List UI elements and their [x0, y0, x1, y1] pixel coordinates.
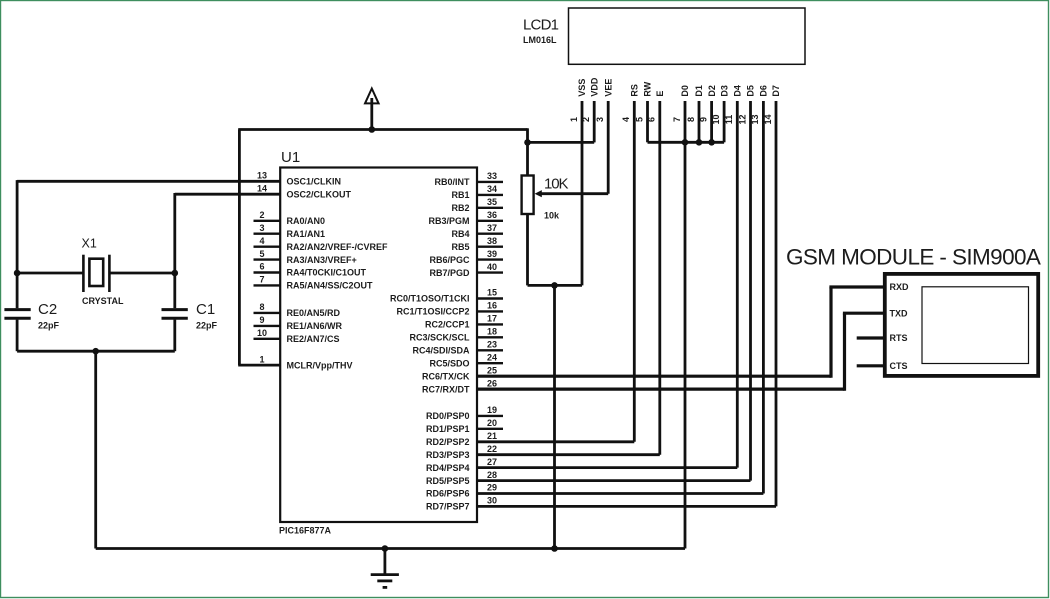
- svg-text:E: E: [655, 91, 665, 97]
- svg-text:RA1/AN1: RA1/AN1: [287, 229, 326, 239]
- svg-text:18: 18: [487, 327, 497, 337]
- LCD1 pin 7 D0 label: [672, 85, 690, 122]
- svg-text:RTS: RTS: [890, 333, 908, 343]
- svg-text:21: 21: [487, 431, 497, 441]
- svg-text:6: 6: [647, 117, 657, 122]
- junction: OSC2 / X1 / C1 node: [172, 270, 179, 277]
- svg-text:D7: D7: [771, 85, 781, 97]
- svg-text:10K: 10K: [544, 176, 568, 193]
- svg-text:5: 5: [259, 249, 264, 259]
- svg-text:OSC1/CLKIN: OSC1/CLKIN: [287, 177, 342, 187]
- U1 pin 6 RA4/T0CKI/C1OUT: [254, 262, 367, 278]
- LCD1 pin 2 VDD label: [581, 77, 599, 122]
- wire: GSM RTS stub: [857, 336, 883, 339]
- wire: VCC power rail: [238, 128, 527, 131]
- LCD1 pin 3 VEE label: [595, 79, 613, 122]
- svg-text:D4: D4: [733, 85, 743, 97]
- RV1 wiper arrow: [535, 190, 609, 197]
- LCD1 pin 9 D2 label: [698, 85, 716, 122]
- svg-text:D5: D5: [746, 85, 756, 97]
- U1 pin 22 RD3/PSP3: [426, 444, 497, 460]
- wire: LCD1 pin 7 D0 vertical: [684, 101, 687, 549]
- svg-text:RB3/PGM: RB3/PGM: [428, 216, 469, 226]
- svg-text:20: 20: [487, 418, 497, 428]
- svg-text:GSM MODULE - SIM900A: GSM MODULE - SIM900A: [786, 245, 1041, 270]
- junction: RV1 bottom / ground drop: [551, 282, 558, 289]
- svg-text:TXD: TXD: [890, 308, 909, 318]
- U1 pin 25 RC6/TX/CK: [422, 365, 497, 381]
- svg-text:PIC16F877A: PIC16F877A: [279, 526, 332, 536]
- svg-text:13: 13: [750, 114, 760, 124]
- wire: RD3 pin 22 to LCD E: [477, 453, 660, 456]
- wire: LCD1 pin 4 RS vertical: [633, 101, 636, 442]
- svg-text:1: 1: [569, 117, 579, 122]
- svg-text:C2: C2: [38, 301, 57, 318]
- svg-text:36: 36: [487, 210, 497, 220]
- wire: LCD1 pin 13 D6 vertical: [762, 101, 765, 494]
- svg-text:33: 33: [487, 171, 497, 181]
- wire: OSC2 pin 14 to crystal: [175, 193, 280, 196]
- svg-text:RA2/AN2/VREF-/CVREF: RA2/AN2/VREF-/CVREF: [287, 242, 389, 252]
- svg-text:30: 30: [487, 496, 497, 506]
- junction: VDD branch: [524, 139, 531, 146]
- svg-text:22: 22: [487, 444, 497, 454]
- svg-text:U1: U1: [281, 149, 300, 166]
- wire: LCD1 pin 3 VEE vertical: [607, 101, 610, 194]
- wire: RD7 pin 30 to LCD D7: [477, 505, 776, 508]
- svg-text:39: 39: [487, 249, 497, 259]
- LCD1 pin 13 D6 label: [750, 85, 768, 124]
- svg-text:14: 14: [763, 114, 773, 124]
- junction: ground rail / ground symbol: [382, 545, 389, 552]
- svg-text:23: 23: [487, 340, 497, 350]
- wire: ground rail: [96, 547, 685, 550]
- svg-text:D6: D6: [759, 85, 769, 97]
- svg-text:D2: D2: [707, 85, 717, 97]
- svg-text:15: 15: [487, 288, 497, 298]
- svg-text:RD2/PSP2: RD2/PSP2: [426, 437, 470, 447]
- svg-text:RB7/PGD: RB7/PGD: [429, 268, 470, 278]
- wire: LCD1 pin 5 RW vertical: [646, 101, 649, 142]
- svg-text:RE0/AN5/RD: RE0/AN5/RD: [287, 308, 341, 318]
- svg-text:RD1/PSP1: RD1/PSP1: [426, 424, 470, 434]
- capacitor C1: [162, 273, 188, 351]
- wire: OSC1 pin 13 to crystal: [17, 180, 280, 183]
- svg-text:2: 2: [581, 117, 591, 122]
- wire: X1 right lead: [109, 272, 174, 275]
- svg-text:RD5/PSP5: RD5/PSP5: [426, 476, 470, 486]
- svg-text:RA0/AN0: RA0/AN0: [287, 216, 326, 226]
- svg-text:19: 19: [487, 405, 497, 415]
- svg-text:27: 27: [487, 457, 497, 467]
- U1 pin 30 RD7/PSP7: [426, 496, 497, 512]
- wire: RD4 pin 27 to LCD D4: [477, 466, 737, 469]
- svg-text:RC1/T1OSI/CCP2: RC1/T1OSI/CCP2: [396, 307, 469, 317]
- svg-text:LCD1: LCD1: [523, 17, 559, 34]
- LCD1 pin 6 E label: [647, 91, 665, 122]
- wire: RW D0 D1 D2 D3 tie: [648, 141, 725, 144]
- wire: RV1 bottom lead: [526, 214, 529, 285]
- U1 pin 36 RB3/PGM: [428, 210, 503, 226]
- svg-text:MCLR/Vpp/THV: MCLR/Vpp/THV: [287, 360, 353, 370]
- U1 pin 23 RC4/SDI/SDA: [412, 340, 503, 356]
- U1 pin 28 RD5/PSP5: [426, 470, 497, 486]
- U1 pin 8 RE0/AN5/RD: [254, 302, 341, 318]
- svg-text:8: 8: [686, 117, 696, 122]
- svg-text:VDD: VDD: [589, 77, 599, 97]
- wire: LCD1 pin 14 D7 vertical: [775, 101, 778, 506]
- svg-text:35: 35: [487, 197, 497, 207]
- svg-text:OSC2/CLKOUT: OSC2/CLKOUT: [287, 189, 352, 199]
- svg-text:16: 16: [487, 301, 497, 311]
- U1 pin 37 RB4: [451, 223, 503, 239]
- svg-text:1: 1: [259, 354, 264, 364]
- svg-text:CTS: CTS: [890, 361, 908, 371]
- U1 pin 9 RE1/AN6/WR: [254, 315, 343, 331]
- wire: LCD1 pin 10 D3 vertical: [723, 101, 726, 142]
- wire: RD5 pin 28 to LCD D5: [477, 479, 751, 482]
- wire: LCD1 pin 12 D5 vertical: [749, 101, 752, 481]
- U1 pin 40 RB7/PGD: [429, 262, 503, 278]
- svg-text:RB2: RB2: [451, 203, 469, 213]
- svg-text:D0: D0: [680, 85, 690, 97]
- wire: RD6 pin 29 to LCD D6: [477, 492, 763, 495]
- svg-text:RXD: RXD: [890, 282, 910, 292]
- U1 pin 5 RA3/AN3/VREF+: [254, 249, 357, 265]
- svg-text:X1: X1: [82, 237, 97, 251]
- U1 pin 14 OSC2/CLKOUT: [257, 183, 352, 199]
- svg-text:12: 12: [737, 114, 747, 124]
- svg-text:RB4: RB4: [451, 229, 469, 239]
- wire: MCLR pin 1 stub: [238, 364, 280, 367]
- crystal X1: [83, 255, 109, 292]
- svg-text:RB1: RB1: [451, 190, 469, 200]
- svg-text:7: 7: [672, 117, 682, 122]
- svg-text:10: 10: [257, 328, 267, 338]
- svg-text:RE2/AN7/CS: RE2/AN7/CS: [287, 334, 340, 344]
- svg-text:RD3/PSP3: RD3/PSP3: [426, 450, 470, 460]
- wire: GSM CTS stub: [857, 364, 883, 367]
- potentiometer RV1 10K body: [522, 176, 534, 215]
- wire: LCD1 pin 11 D4 vertical: [736, 101, 739, 468]
- wire: VDD branch to LCD pin 2: [528, 141, 595, 144]
- svg-text:RC5/SDO: RC5/SDO: [429, 358, 469, 368]
- U1 pin 21 RD2/PSP2: [426, 431, 497, 447]
- svg-text:29: 29: [487, 483, 497, 493]
- svg-text:RB0/INT: RB0/INT: [434, 177, 470, 187]
- junction: tie at D2: [708, 139, 715, 146]
- U1 pin 4 RA2/AN2/VREF-/CVREF: [254, 236, 389, 252]
- U1 pin 18 RC3/SCK/SCL: [409, 327, 503, 343]
- U1 pin 13 OSC1/CLKIN: [257, 171, 341, 187]
- U1 pin 10 RE2/AN7/CS: [254, 328, 340, 344]
- svg-text:17: 17: [487, 314, 497, 324]
- U1 pin 26 RC7/RX/DT: [422, 378, 497, 394]
- junction: tie at D1: [696, 139, 703, 146]
- junction: OSC1 / X1 / C2 node: [14, 270, 21, 277]
- LCD1 pin 4 RS label: [621, 84, 639, 122]
- U1 pin 17 RC2/CCP1: [425, 314, 503, 330]
- svg-text:C1: C1: [196, 301, 215, 318]
- LCD1 pin 8 D1 label: [686, 85, 704, 122]
- GSM module screen: [922, 287, 1029, 364]
- wire: crystal ground drop: [94, 351, 97, 548]
- U1 pin 20 RD1/PSP1: [426, 418, 503, 434]
- U1 pin 7 RA5/AN4/SS/C2OUT: [254, 275, 374, 291]
- LCD1 pin 14 D7 label: [763, 85, 781, 124]
- svg-text:RE1/AN6/WR: RE1/AN6/WR: [287, 321, 343, 331]
- U1 pin 33 RB0/INT: [434, 171, 503, 187]
- svg-text:VSS: VSS: [577, 79, 587, 97]
- svg-text:RA5/AN4/SS/C2OUT: RA5/AN4/SS/C2OUT: [287, 281, 374, 291]
- svg-text:RB5: RB5: [451, 242, 469, 252]
- wire: OSC1 down to X1 left node: [16, 180, 19, 273]
- svg-text:RC4/SDI/SDA: RC4/SDI/SDA: [412, 346, 470, 356]
- LCD1 pin 5 RW label: [634, 81, 652, 122]
- wire: LCD1 pin 8 D1 vertical: [698, 101, 701, 142]
- svg-text:26: 26: [487, 378, 497, 388]
- LCD1 pin 11 D4 label: [724, 85, 742, 124]
- U1 pin 24 RC5/SDO: [429, 352, 503, 368]
- wire: VCC to MCLR riser: [238, 130, 241, 366]
- svg-text:22pF: 22pF: [38, 321, 60, 331]
- svg-text:9: 9: [259, 315, 264, 325]
- U1 pin 15 RC0/T1OSO/T1CKI: [390, 288, 503, 304]
- svg-text:D3: D3: [719, 85, 729, 97]
- wire: RD2 pin 21 to LCD RS: [477, 440, 634, 443]
- svg-text:RD6/PSP6: RD6/PSP6: [426, 489, 470, 499]
- svg-text:RC7/RX/DT: RC7/RX/DT: [422, 384, 470, 394]
- svg-text:4: 4: [259, 236, 264, 246]
- wire: C2/C1 common bottom rail: [17, 350, 175, 353]
- svg-text:RC6/TX/CK: RC6/TX/CK: [422, 371, 470, 381]
- U1 pin 3 RA1/AN1: [254, 223, 326, 239]
- power symbol VCC arrow: [365, 89, 379, 130]
- U1 pin 2 RA0/AN0: [254, 210, 326, 226]
- svg-text:RC3/SCK/SCL: RC3/SCK/SCL: [409, 333, 470, 343]
- svg-text:RC0/T1OSO/T1CKI: RC0/T1OSO/T1CKI: [390, 294, 470, 304]
- svg-text:RD4/PSP4: RD4/PSP4: [426, 463, 470, 473]
- LCD1 pin 10 D3 label: [711, 85, 729, 124]
- svg-text:CRYSTAL: CRYSTAL: [82, 296, 124, 306]
- svg-text:D1: D1: [694, 85, 704, 97]
- U1 pin 16 RC1/T1OSI/CCP2: [396, 301, 503, 317]
- svg-text:14: 14: [257, 183, 267, 193]
- svg-text:LM016L: LM016L: [523, 35, 557, 45]
- svg-text:6: 6: [259, 262, 264, 272]
- U1 pin 27 RD4/PSP4: [426, 457, 497, 473]
- wire: RC7/RX pin 26 to GSM TXD: [477, 313, 883, 391]
- op: microcontroller U1 PIC16F877A body: [280, 168, 477, 523]
- svg-text:RB6/PGC: RB6/PGC: [429, 255, 470, 265]
- U1 pin 35 RB2: [451, 197, 503, 213]
- U1 pin 39 RB6/PGC: [429, 249, 503, 265]
- svg-text:4: 4: [621, 117, 631, 122]
- svg-text:VEE: VEE: [603, 79, 613, 97]
- wire: RC6/TX pin 25 to GSM RXD: [477, 287, 883, 378]
- svg-text:5: 5: [634, 117, 644, 122]
- svg-text:RS: RS: [630, 84, 640, 97]
- svg-text:22pF: 22pF: [196, 321, 218, 331]
- svg-text:38: 38: [487, 236, 497, 246]
- junction: ground rail / RV1 drop: [551, 545, 558, 552]
- svg-text:RD0/PSP0: RD0/PSP0: [426, 411, 470, 421]
- junction: tie at D0: [682, 139, 689, 146]
- svg-text:3: 3: [259, 223, 264, 233]
- ground symbol: [371, 549, 399, 588]
- svg-text:37: 37: [487, 223, 497, 233]
- U1 pin 38 RB5: [451, 236, 503, 252]
- wire: LCD1 pin 2 VDD vertical: [593, 101, 596, 142]
- LCD display LCD1 body: [569, 8, 806, 64]
- svg-text:RW: RW: [643, 81, 653, 96]
- capacitor C2: [4, 273, 30, 351]
- GSM module SIM900A body: [885, 274, 1038, 376]
- svg-text:RA3/AN3/VREF+: RA3/AN3/VREF+: [287, 255, 357, 265]
- U1 pin 19 RD0/PSP0: [426, 405, 503, 421]
- wire: RV1 bottom to VSS column: [528, 284, 583, 287]
- wire: X1 left lead: [17, 272, 83, 275]
- junction: VCC rail / arrow: [369, 126, 376, 133]
- svg-text:40: 40: [487, 262, 497, 272]
- svg-text:10: 10: [711, 114, 721, 124]
- svg-text:25: 25: [487, 365, 497, 375]
- junction: capacitor rail to ground drop: [92, 348, 99, 355]
- svg-text:24: 24: [487, 352, 497, 362]
- U1 pin 1 MCLR/Vpp/THV: [259, 354, 352, 370]
- svg-text:10k: 10k: [544, 211, 560, 221]
- svg-text:28: 28: [487, 470, 497, 480]
- wire: LCD1 pin 9 D2 vertical: [710, 101, 713, 142]
- wire: LCD1 pin 6 E vertical: [658, 101, 661, 455]
- LCD1 pin 12 D5 label: [737, 85, 755, 124]
- svg-text:13: 13: [257, 171, 267, 181]
- svg-text:RC2/CCP1: RC2/CCP1: [425, 320, 470, 330]
- wire: LCD1 pin 1 VSS vertical: [581, 101, 584, 285]
- wire: OSC2 down to X1 right node: [173, 193, 176, 273]
- svg-text:8: 8: [259, 302, 264, 312]
- svg-text:RD7/PSP7: RD7/PSP7: [426, 502, 470, 512]
- svg-text:2: 2: [259, 210, 264, 220]
- svg-text:3: 3: [595, 117, 605, 122]
- svg-text:RA4/T0CKI/C1OUT: RA4/T0CKI/C1OUT: [287, 268, 367, 278]
- wire: VCC drop to resistor RV 10K: [526, 128, 529, 175]
- U1 pin 29 RD6/PSP6: [426, 483, 497, 499]
- svg-text:9: 9: [698, 117, 708, 122]
- svg-text:7: 7: [259, 275, 264, 285]
- U1 pin 34 RB1: [451, 184, 503, 200]
- svg-text:11: 11: [724, 115, 734, 125]
- svg-text:34: 34: [487, 184, 497, 194]
- wire: RV1 ground drop: [553, 285, 556, 548]
- LCD1 pin 1 VSS label: [569, 79, 587, 122]
